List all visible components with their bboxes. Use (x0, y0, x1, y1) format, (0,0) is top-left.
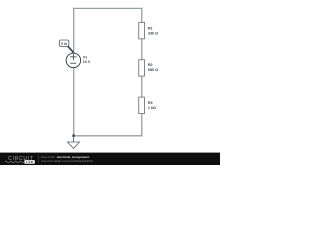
node V_in flag (59, 40, 73, 53)
wire below R3 (141, 114, 143, 137)
junction node (72, 134, 75, 137)
label R2 680 ohm (148, 63, 158, 72)
wire left vertical lower (73, 68, 75, 137)
wire right vertical (R1 top feed) (141, 8, 143, 23)
resistor R3 (139, 97, 145, 113)
logo divider (38, 155, 40, 164)
wire top horizontal (73, 7, 142, 9)
svg-text:http://circuitlab.com/c/e2s6ba: http://circuitlab.com/c/e2s6ba2qb45tz/ (41, 159, 93, 163)
wire left vertical upper (73, 8, 75, 54)
logo LAB box (24, 160, 34, 164)
wire between R2 and R3 (141, 76, 143, 97)
label V1 value (83, 56, 91, 65)
svg-text:LAB: LAB (26, 160, 33, 164)
svg-text:R3: R3 (148, 101, 153, 105)
svg-text:R2: R2 (148, 63, 153, 67)
label R3 1 kohm (148, 101, 156, 110)
voltage source V1 (66, 53, 81, 68)
svg-text:680 Ω: 680 Ω (148, 68, 158, 72)
ground (68, 136, 80, 149)
wire bottom horizontal (73, 135, 142, 137)
svg-text:V in: V in (61, 42, 67, 46)
resistor R2 (139, 60, 145, 76)
watermark text line 1 (41, 155, 89, 159)
svg-text:1 kΩ: 1 kΩ (148, 106, 156, 110)
logo wave (5, 161, 24, 163)
resistor R1 (139, 22, 145, 38)
svg-text:R1: R1 (148, 27, 153, 31)
svg-text:330 Ω: 330 Ω (148, 31, 158, 35)
wire between R1 and R2 (141, 39, 143, 60)
svg-text:V1: V1 (83, 56, 88, 60)
svg-text:10 V: 10 V (83, 60, 91, 64)
label R1 330 ohm (148, 27, 158, 36)
watermark bar (0, 153, 220, 165)
